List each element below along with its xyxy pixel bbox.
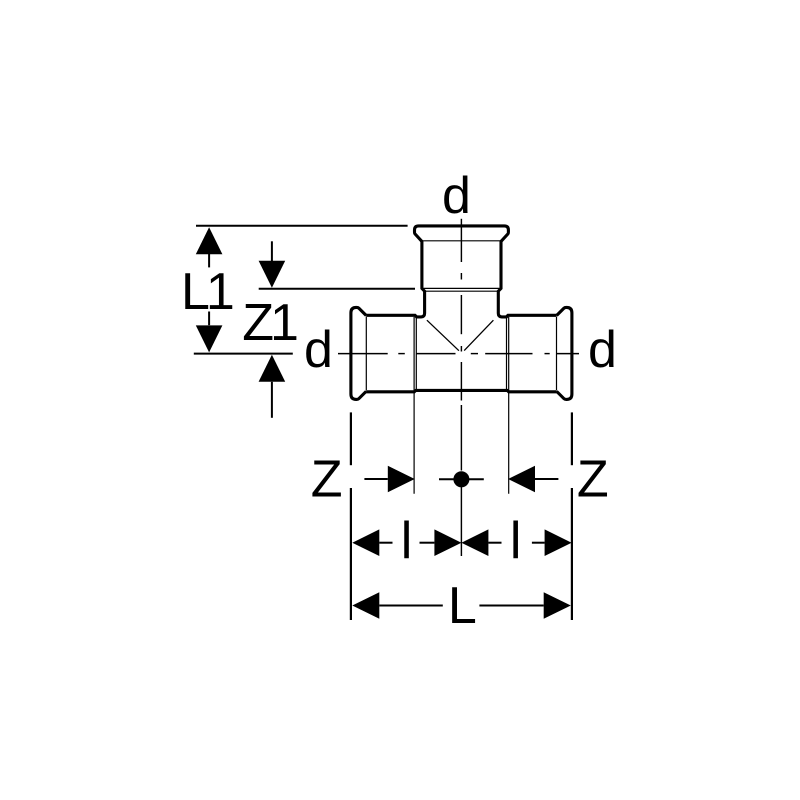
dimension L1 up arrow (196, 227, 223, 267)
dimension l left: right arrow (420, 529, 462, 556)
dimension Z1 down arrow (259, 241, 286, 287)
internal diagonal left (427, 320, 459, 351)
svg-text:l: l (510, 512, 522, 570)
vertical centerline dashes (460, 219, 462, 556)
dimension Z1 up arrow (259, 355, 286, 418)
dimension L: left arrow (352, 592, 443, 619)
tee fitting: top branch press bead (415, 226, 509, 242)
dimension Z left arrow (364, 466, 414, 493)
left socket stop line + extension below (413, 317, 415, 494)
right socket stop inner line (506, 317, 508, 390)
svg-text:Z1: Z1 (242, 294, 297, 352)
dimension reference line Z1 top (socket stop level) (259, 288, 415, 290)
internal diagonal right (464, 320, 493, 350)
dimension l right: left arrow (461, 529, 501, 556)
body bottom edge (366, 390, 556, 391)
svg-text:L1: L1 (181, 263, 233, 321)
center reference dot (439, 471, 484, 487)
dimension L1 down arrow (196, 312, 223, 353)
horizontal centerline dashes (338, 353, 579, 355)
branch bead bottom edge thin line (422, 240, 501, 242)
right press bead (557, 307, 572, 399)
left outer extension line (350, 412, 352, 465)
dimension L: right arrow (479, 592, 570, 619)
svg-text:Z: Z (577, 451, 609, 509)
right socket stop line + extension below (508, 317, 510, 494)
left press bead (351, 307, 366, 399)
svg-text:d: d (442, 167, 471, 225)
dimension Z right arrow (508, 466, 558, 493)
svg-text:d: d (588, 321, 617, 379)
right bead inner thin line (556, 317, 558, 390)
svg-text:l: l (401, 512, 413, 570)
branch socket stop thin lines (424, 287, 500, 289)
dimension reference line centerline level left (194, 353, 293, 355)
right outer extension line (571, 412, 573, 465)
dimension reference line L1 top (fitting top level) (196, 225, 408, 227)
dimension l left: left arrow (352, 529, 392, 556)
svg-text:L: L (448, 577, 477, 635)
dimension l right: right arrow (532, 529, 572, 556)
branch socket right wall with step and fillet into body (498, 241, 556, 317)
left bead inner thin line (365, 317, 367, 390)
branch socket left wall with step and fillet into body (366, 241, 424, 317)
left socket stop inner line (415, 317, 417, 390)
svg-text:d: d (304, 321, 333, 379)
svg-text:Z: Z (311, 451, 343, 509)
